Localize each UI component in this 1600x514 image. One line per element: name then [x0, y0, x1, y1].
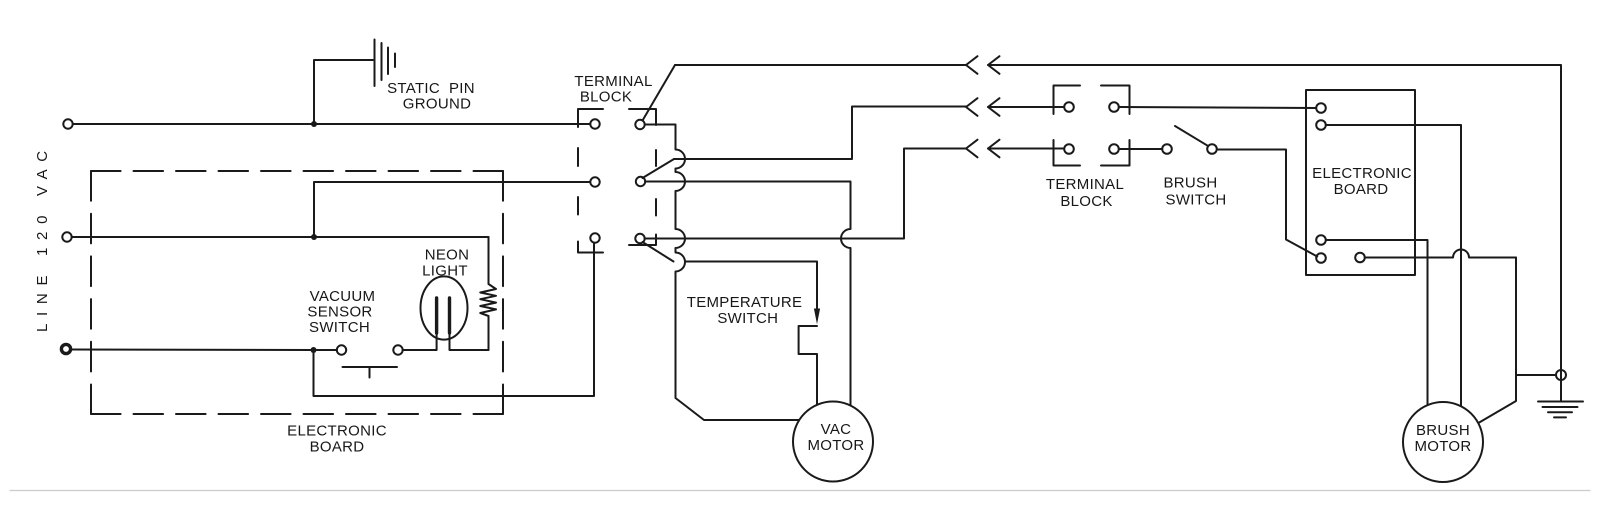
- node L2 input terminal: [62, 232, 71, 241]
- svg-text:SWITCH: SWITCH: [1166, 192, 1227, 209]
- wire L3 drop to board bottom wire: [314, 243, 595, 396]
- terminal block TB1 dashed side segments: [577, 148, 579, 215]
- wire diagonal TB1-R3 down: [643, 242, 674, 262]
- wire T2 to brush motor right lead: [1326, 125, 1461, 406]
- terminal board T5: [1355, 253, 1365, 263]
- wire right riser down to brush motor diagonal: [1478, 258, 1517, 424]
- wire row to vac connector riser: [674, 107, 966, 160]
- temperature switch arrow contact: [814, 309, 820, 325]
- terminal TB1 R3: [635, 234, 644, 243]
- wire TB1-R3 row to riser: [645, 149, 966, 239]
- brush switch S1 contact left: [1162, 144, 1172, 154]
- wire temperature switch top: [685, 262, 817, 311]
- node BRUSH MOTOR label: [1414, 422, 1471, 455]
- svg-text:BRUSH: BRUSH: [1416, 422, 1470, 439]
- svg-text:TERMINAL: TERMINAL: [1046, 176, 1124, 193]
- svg-text:MOTOR: MOTOR: [807, 437, 864, 454]
- ground earth symbol: [1538, 402, 1583, 418]
- svg-text:ELECTRONIC: ELECTRONIC: [287, 423, 387, 440]
- svg-text:BLOCK: BLOCK: [1060, 193, 1112, 210]
- terminal board T2: [1316, 120, 1326, 130]
- wire switch to neon lamp left electrode: [403, 333, 437, 350]
- svg-text:BLOCK: BLOCK: [580, 89, 632, 106]
- junction dot L2: [311, 234, 317, 240]
- wire L3 horizontal to vacuum switch: [71, 349, 337, 352]
- neon light electrodes: [437, 298, 450, 333]
- terminal TB2 top-right: [1109, 102, 1119, 112]
- svg-text:TERMINAL: TERMINAL: [574, 73, 652, 90]
- node BRUSH SWITCH label: [1163, 175, 1226, 209]
- node ELECTRONIC BOARD label (right): [1312, 165, 1412, 198]
- svg-text:NEON: NEON: [425, 247, 470, 264]
- node L3 input terminal (bold): [61, 344, 70, 353]
- svg-text:ELECTRONIC: ELECTRONIC: [1312, 165, 1412, 182]
- svg-text:LIGHT: LIGHT: [422, 263, 468, 280]
- terminal TB2 top-left: [1064, 102, 1074, 112]
- node LINE 120 VAC label: [34, 143, 51, 332]
- wire row2 connector to TB2: [988, 106, 1064, 108]
- node VACUUM SENSOR SWITCH label: [307, 288, 375, 336]
- terminal board T4: [1316, 253, 1326, 263]
- svg-text:BOARD: BOARD: [1334, 181, 1389, 198]
- ground terminal circle: [1556, 370, 1566, 380]
- terminal TB1 L1: [590, 119, 599, 128]
- node ELECTRONIC BOARD label (left): [287, 423, 387, 456]
- wire TB1-R2 to vac motor (hopped at 675.5): [645, 182, 850, 406]
- node STATIC PIN GROUND label: [387, 80, 475, 113]
- terminal TB1 L3: [590, 233, 599, 242]
- vacuum sensor switch actuator bar: [343, 367, 398, 378]
- wire static pin ground riser: [314, 60, 373, 124]
- neon light NE1 envelope: [421, 276, 468, 339]
- terminal board T1: [1316, 103, 1326, 113]
- connector chevrons row3: [966, 140, 978, 158]
- svg-text:GROUND: GROUND: [403, 96, 471, 113]
- svg-text:MOTOR: MOTOR: [1414, 438, 1471, 455]
- connector chevrons row1: [966, 56, 978, 74]
- svg-text:BOARD: BOARD: [310, 439, 365, 456]
- wire diagonal TB1-R1 to top line: [643, 65, 676, 121]
- terminal TB2 bottom-left: [1064, 144, 1074, 154]
- terminal TB2 bottom-right: [1109, 144, 1119, 154]
- page footer rule: [10, 490, 1590, 492]
- wire TB2 to brush switch: [1119, 148, 1162, 150]
- svg-text:STATIC PIN: STATIC PIN: [387, 80, 475, 97]
- wire top line right of connector to right edge: [988, 65, 1561, 402]
- wire TB2 to electronic board T1: [1119, 107, 1316, 108]
- svg-text:SWITCH: SWITCH: [717, 310, 778, 327]
- wire L2 riser to terminal block row2: [314, 182, 590, 237]
- wire L2 to resistor: [314, 236, 489, 238]
- vac motor M1 circle: [793, 402, 873, 482]
- wire L2 horizontal: [72, 236, 314, 238]
- wire diagonal TB1-R2 up: [643, 159, 675, 178]
- wire brush switch to board T4: [1217, 150, 1317, 257]
- wire row3 connector to brush switch: [988, 148, 1064, 150]
- terminal TB1 L2: [590, 177, 599, 186]
- svg-text:LINE 120 VAC: LINE 120 VAC: [34, 143, 51, 332]
- svg-text:SENSOR: SENSOR: [307, 304, 372, 321]
- terminal board T3: [1316, 235, 1326, 245]
- node TERMINAL BLOCK label (TB2): [1046, 176, 1124, 210]
- electronic board dashed outline (left): [91, 170, 503, 172]
- terminal TB1 R1: [635, 120, 644, 129]
- junction dot L3: [311, 347, 317, 353]
- svg-text:BRUSH: BRUSH: [1163, 175, 1217, 192]
- svg-text:VAC: VAC: [821, 421, 852, 438]
- svg-text:TEMPERATURE: TEMPERATURE: [687, 294, 803, 311]
- brush motor M2 circle: [1403, 402, 1483, 482]
- wire ground branch: [1516, 374, 1556, 376]
- electronic board (right) outline: [1306, 90, 1415, 275]
- wire TB1-R1 down to temperature switch (with hops): [645, 125, 800, 421]
- wire T5 to right riser (hop over 1461): [1365, 250, 1516, 258]
- wire L1 horizontal to terminal block: [73, 123, 590, 125]
- terminal block TB2 corner brackets: [1054, 86, 1081, 115]
- wire neon right electrode to resistor bottom: [450, 333, 489, 350]
- terminal TB1 R2: [636, 177, 645, 186]
- svg-text:SWITCH: SWITCH: [309, 319, 370, 336]
- connector chevrons row2: [966, 98, 978, 116]
- node TEMPERATURE SWITCH label: [687, 294, 803, 327]
- junction dot L1: [311, 121, 317, 127]
- resistor R1: [480, 237, 496, 350]
- wire T3 to brush motor left lead: [1326, 240, 1428, 405]
- vacuum sensor switch contact 2: [393, 345, 402, 354]
- node L1 input terminal: [63, 119, 72, 128]
- brush switch arm: [1175, 126, 1208, 146]
- temperature switch lower contact step: [799, 326, 817, 405]
- node TERMINAL BLOCK label (TB1): [574, 73, 652, 106]
- wire top line to connector: [675, 64, 966, 66]
- node VAC MOTOR label: [807, 421, 864, 454]
- node NEON LIGHT label: [422, 247, 469, 280]
- brush switch S1 contact right: [1207, 144, 1217, 154]
- ground static pin (4 bars): [375, 40, 396, 87]
- svg-text:VACUUM: VACUUM: [310, 288, 376, 305]
- vacuum sensor switch contact 1: [337, 345, 346, 354]
- terminal block TB1 outline corner brackets: [578, 109, 603, 127]
